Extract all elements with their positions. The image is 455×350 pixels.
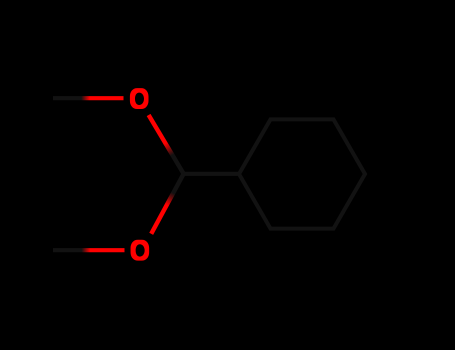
bond O1-C (acetal carbon, upper) <box>149 115 184 174</box>
atom O2 <box>131 240 150 261</box>
bond C-ring (attachment) <box>184 172 239 176</box>
cyclohexane ring <box>239 119 365 228</box>
bond O2-C (acetal carbon, lower) <box>151 174 183 234</box>
atom O1 <box>130 88 149 109</box>
bond CH3-O1 (top methoxy) <box>53 96 124 100</box>
bond CH3-O2 (bottom methoxy) <box>53 248 125 252</box>
